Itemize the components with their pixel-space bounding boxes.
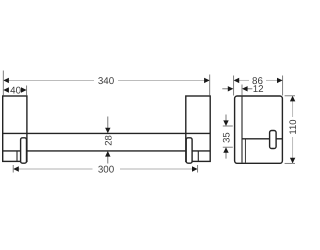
svg-text:35: 35 (221, 132, 232, 143)
svg-text:340: 340 (98, 76, 115, 87)
svg-text:300: 300 (98, 165, 115, 176)
svg-text:110: 110 (288, 119, 299, 134)
svg-text:40: 40 (10, 85, 21, 96)
svg-text:12: 12 (253, 84, 264, 95)
svg-text:28: 28 (103, 135, 114, 146)
